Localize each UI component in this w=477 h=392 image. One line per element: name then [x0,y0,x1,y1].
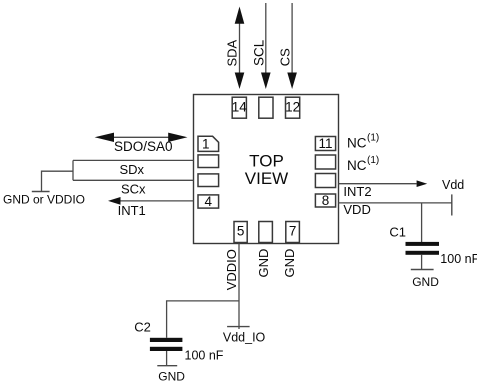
svg-text:100 nF: 100 nF [185,348,224,362]
pin 11 [315,137,335,151]
pin 10 [315,155,335,169]
svg-text:NC: NC [347,158,367,173]
ground bar (C2) [157,365,177,367]
svg-text:12: 12 [285,99,300,114]
svg-text:TOP: TOP [249,152,284,171]
pin 6 [259,222,273,243]
svg-text:SCx: SCx [121,182,146,197]
pin 8 [315,194,335,207]
pin 5 [234,222,247,243]
svg-text:C2: C2 [134,319,151,334]
pin 12 [286,97,300,118]
svg-text:7: 7 [289,224,297,239]
svg-text:C1: C1 [389,224,406,239]
pin 14 [232,97,246,118]
svg-text:VDDIO: VDDIO [224,249,239,290]
pin 2 [198,155,219,168]
SCL arrow [265,3,267,74]
wire from VDD to C1 [421,203,423,242]
svg-text:CS: CS [277,48,292,66]
wire SDx [73,159,194,161]
svg-text:(1): (1) [367,133,379,144]
pin 13 [259,97,273,118]
svg-text:14: 14 [232,99,248,114]
svg-text:GND or VDDIO: GND or VDDIO [3,193,85,207]
svg-text:4: 4 [205,194,213,209]
ground bar (C1) [411,269,434,271]
pin 9 [315,174,335,188]
svg-text:100 nF: 100 nF [440,252,477,266]
SDO/SA0 bidirectional arrow [112,136,170,138]
pin 1 (chamfered corner) [198,136,219,151]
svg-text:SDA: SDA [225,39,240,66]
svg-text:INT1: INT1 [118,203,146,218]
wire SCx [73,179,194,181]
GND or VDDIO rail tap bar [32,191,50,193]
svg-text:Vdd: Vdd [442,178,464,192]
wire C1 to ground [421,255,423,270]
wire VDDIO down from pin 5 [238,244,240,330]
svg-text:VIEW: VIEW [245,169,288,188]
wire VDD to supply [339,202,452,204]
CS arrow [291,3,293,74]
vertical junction wire joining SDx and SCx [72,160,74,180]
svg-text:GND: GND [282,249,297,278]
IC package U1 outline (TOP VIEW) [194,95,339,244]
capacitor C1 [406,242,440,246]
svg-text:Vdd_IO: Vdd_IO [223,331,266,345]
svg-text:11: 11 [318,136,332,151]
svg-text:5: 5 [237,224,245,239]
capacitor C2 [150,338,183,342]
svg-text:NC: NC [347,136,367,151]
pin 7 [286,222,300,243]
svg-text:GND: GND [256,249,271,278]
INT2 arrow [339,183,417,185]
svg-text:GND: GND [158,370,185,384]
svg-text:GND: GND [412,275,439,289]
svg-text:SCL: SCL [252,39,267,66]
pin 4 [198,195,219,208]
SDA bidirectional arrow [239,22,241,74]
svg-text:(1): (1) [367,155,379,166]
Vdd supply tap [451,194,453,215]
svg-text:1: 1 [202,136,210,151]
wire branch to pull-up rail [42,171,74,191]
pin 3 [198,174,219,187]
svg-text:INT2: INT2 [343,184,371,199]
svg-text:SDO/SA0: SDO/SA0 [114,139,173,154]
svg-text:VDD: VDD [343,202,370,217]
Vdd_IO tap bar [227,326,250,328]
svg-text:8: 8 [322,193,330,208]
wire branch to C2 [167,301,239,338]
svg-text:SDx: SDx [120,162,145,177]
wire C2 to ground [166,351,168,366]
INT1 arrow [119,200,194,202]
